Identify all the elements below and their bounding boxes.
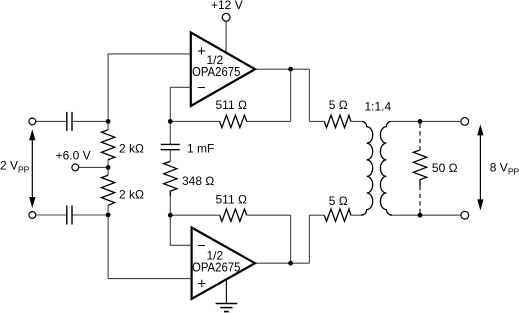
- op-amp U1a triangle: [191, 32, 255, 106]
- capacitor C1 top input: [67, 112, 72, 131]
- svg-text:2 kΩ: 2 kΩ: [119, 141, 144, 155]
- capacitor C2 bottom input: [67, 206, 72, 225]
- svg-text:8 VPP: 8 VPP: [490, 160, 519, 176]
- wire R 5ohm top to transformer: [351, 120, 361, 122]
- arrow 8Vpp: [477, 124, 483, 210]
- wire feedback riser top: [290, 69, 292, 121]
- svg-text:+12 V: +12 V: [211, 0, 243, 12]
- svg-text:−: −: [197, 238, 206, 255]
- terminal output bottom: [461, 211, 469, 219]
- node dot B: [106, 213, 111, 218]
- arrow 2Vpp: [29, 129, 35, 208]
- wire R 2k #2 stub to node B: [107, 205, 109, 215]
- svg-text:511 Ω: 511 Ω: [216, 193, 247, 207]
- terminal +6.0V: [72, 164, 79, 171]
- wire R348 to node D: [169, 196, 171, 215]
- wire node B riser to bottom +input: [108, 215, 192, 279]
- wire R511 bottom to feedback riser: [247, 214, 291, 216]
- wire cap 1mF to R348: [169, 150, 171, 162]
- svg-text:5 Ω: 5 Ω: [329, 98, 348, 112]
- wire secondary top to output terminal: [392, 120, 461, 122]
- svg-text:2 kΩ: 2 kΩ: [119, 188, 144, 202]
- svg-text:348 Ω: 348 Ω: [182, 174, 214, 188]
- wire cap to node A: [73, 120, 109, 122]
- transformer T1 primary winding: [361, 121, 373, 215]
- node dot C: [168, 119, 173, 124]
- svg-text:50 Ω: 50 Ω: [432, 161, 458, 175]
- wire top -input branch: [170, 87, 191, 121]
- node dot load top: [418, 119, 423, 124]
- wire cap to node B: [73, 214, 109, 216]
- wire node D to R511 bottom: [170, 214, 219, 216]
- terminal +12V: [222, 13, 230, 21]
- ground: [216, 280, 238, 312]
- wire node D to bottom -input: [170, 215, 191, 245]
- wire output up to 5ohm rail bottom: [308, 215, 310, 263]
- resistor R4 511 ohm top: [220, 115, 247, 127]
- op-amp U1b triangle: [192, 228, 255, 299]
- wire top-left input to cap: [36, 120, 66, 122]
- wire feedback riser bottom: [290, 215, 292, 263]
- wire node A riser to +input: [108, 54, 191, 122]
- svg-text:OPA2675: OPA2675: [192, 64, 240, 79]
- wire to R 5ohm top: [309, 120, 324, 122]
- wire bottom-left input to cap: [36, 214, 66, 216]
- wire R 2k bottom stub to node mid: [107, 160, 109, 176]
- wire secondary bottom to output terminal: [392, 214, 461, 216]
- wire R511 top to feedback riser: [247, 120, 291, 122]
- node dot A: [106, 119, 111, 124]
- dashed load connection bottom: [419, 186, 421, 213]
- wire +12V stem: [225, 21, 227, 53]
- transformer T1 secondary winding: [380, 121, 392, 215]
- svg-text:5 Ω: 5 Ω: [329, 194, 348, 208]
- resistor R7 5 ohm bottom: [324, 209, 351, 221]
- terminal output top: [461, 118, 469, 126]
- wire output down to 5ohm rail top: [308, 69, 310, 121]
- svg-text:1 mF: 1 mF: [187, 141, 214, 155]
- resistor R1 2k top: [102, 130, 115, 160]
- svg-text:511 Ω: 511 Ω: [216, 98, 247, 112]
- resistor R5 511 ohm bottom: [220, 209, 247, 221]
- resistor R6 5 ohm top: [324, 115, 351, 127]
- resistor R8 50 ohm load: [413, 150, 426, 186]
- svg-text:2 VPP: 2 VPP: [0, 158, 30, 174]
- svg-text:+: +: [197, 43, 206, 60]
- wire bottom op-amp output: [254, 262, 309, 264]
- dashed load connection top: [419, 124, 421, 151]
- wire R 5ohm bottom to transformer: [351, 214, 361, 216]
- node dot mid +6V: [106, 165, 111, 170]
- resistor R3 348 ohm: [164, 161, 177, 196]
- resistor R2 2k bottom: [102, 175, 115, 205]
- wire +6.0V terminal to node mid: [79, 166, 108, 168]
- wire to R 5ohm bottom: [309, 214, 324, 216]
- node dot load bottom: [418, 213, 423, 218]
- svg-text:−: −: [197, 80, 206, 97]
- node dot D: [168, 213, 173, 218]
- svg-text:OPA2675: OPA2675: [192, 259, 240, 274]
- svg-text:+6.0 V: +6.0 V: [56, 149, 91, 163]
- capacitor C3 1mF: [161, 144, 180, 149]
- node dot top output: [288, 67, 293, 72]
- wire node C to R511 top: [170, 120, 219, 122]
- svg-text:1:1.4: 1:1.4: [365, 100, 392, 114]
- wire node C to cap 1mF: [169, 121, 171, 144]
- node dot bottom output: [288, 261, 293, 266]
- wire node A to R 2k top stub: [107, 121, 109, 129]
- wire top op-amp output: [254, 68, 309, 70]
- terminal input top: [29, 118, 36, 125]
- svg-text:+: +: [197, 276, 206, 293]
- terminal input bottom: [29, 212, 36, 219]
